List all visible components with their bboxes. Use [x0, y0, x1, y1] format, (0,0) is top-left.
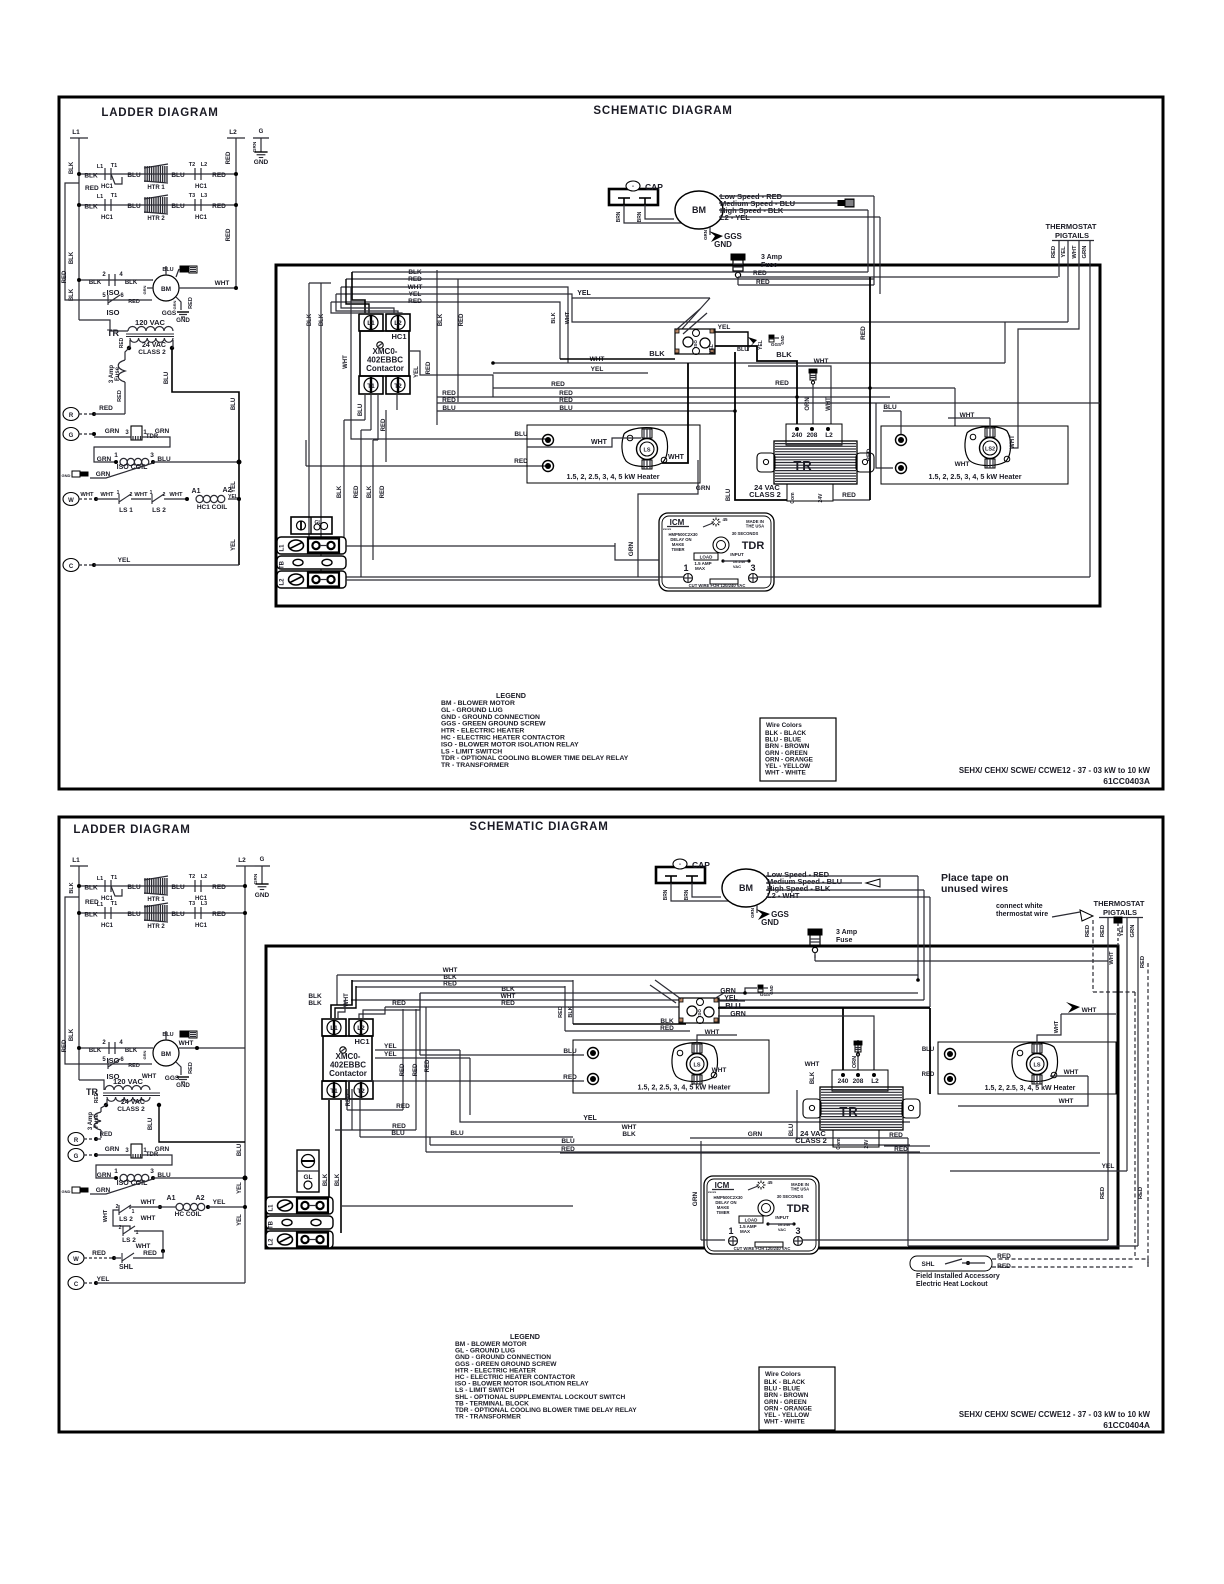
svg-text:Com: Com: [836, 1138, 842, 1150]
terminal rows p2: [266, 1197, 333, 1214]
svg-text:WHT: WHT: [80, 492, 94, 498]
svg-text:CAP: CAP: [692, 860, 710, 870]
contact HC1 p2 row2 right: [194, 907, 196, 919]
svg-text:G: G: [69, 433, 74, 439]
heater 1 box p2: [573, 1040, 769, 1093]
svg-text:RED: RED: [867, 448, 873, 461]
terminal GL block schematic1: [291, 517, 332, 534]
svg-text:L2: L2: [825, 432, 833, 439]
svg-text:TR - TRANSFORMER: TR - TRANSFORMER: [455, 1414, 521, 1421]
svg-text:VAC: VAC: [778, 1227, 786, 1232]
svg-text:L3: L3: [201, 193, 207, 199]
svg-text:BLU: BLU: [559, 405, 573, 412]
lockout SHL p2: [910, 1256, 992, 1271]
svg-text:CLASS 2: CLASS 2: [117, 1106, 145, 1113]
svg-text:RED: RED: [756, 279, 770, 286]
svg-text:YEL: YEL: [237, 1214, 243, 1226]
contact HC1 p2 row1 left: [104, 880, 106, 892]
svg-text:WHT: WHT: [805, 1061, 820, 1068]
svg-text:RED: RED: [563, 1074, 577, 1081]
svg-text:WHT: WHT: [408, 284, 423, 291]
svg-text:HC1: HC1: [101, 215, 114, 221]
svg-text:-: -: [632, 184, 634, 190]
svg-text:ICM: ICM: [670, 518, 685, 527]
svg-text:BLU: BLU: [127, 203, 141, 210]
svg-text:BLK: BLK: [335, 1173, 341, 1186]
svg-text:TIMER: TIMER: [671, 547, 684, 552]
svg-text:BLU: BLU: [725, 1001, 740, 1010]
limit switch LS 1: [118, 494, 120, 504]
svg-text:GRN: GRN: [253, 873, 259, 884]
terminal W: [63, 493, 79, 506]
wire RED h2 p2: [335, 1129, 416, 1131]
svg-text:GRN: GRN: [628, 541, 635, 556]
svg-text:CUT WIRE FOR 120/240 VAC: CUT WIRE FOR 120/240 VAC: [689, 583, 746, 588]
svg-text:RED: RED: [1100, 1187, 1106, 1199]
svg-text:1: 1: [117, 490, 120, 496]
svg-text:YEL: YEL: [758, 340, 764, 350]
svg-text:YEL: YEL: [1061, 246, 1067, 258]
svg-text:BLK: BLK: [367, 485, 373, 498]
svg-text:CLASS 2: CLASS 2: [795, 1136, 827, 1145]
svg-text:WHT: WHT: [134, 492, 148, 498]
svg-text:WHT: WHT: [142, 1073, 156, 1080]
svg-text:TR: TR: [793, 458, 812, 473]
svg-text:BLK: BLK: [568, 1006, 574, 1017]
wire BLU mid: [437, 410, 735, 412]
contact ISO 5-6 p2: [97, 1063, 135, 1065]
svg-text:W: W: [73, 1257, 79, 1263]
heater 2 box: [881, 426, 1068, 484]
svg-text:BLU: BLU: [922, 1047, 934, 1053]
svg-text:BLU: BLU: [148, 1118, 154, 1130]
capacitor CAP: [609, 189, 658, 205]
svg-text:HTR 1: HTR 1: [147, 185, 165, 191]
svg-text:TR - TRANSFORMER: TR - TRANSFORMER: [441, 762, 509, 769]
svg-text:RED: RED: [1138, 1187, 1144, 1199]
svg-text:BLU: BLU: [391, 1130, 405, 1137]
svg-text:WHT: WHT: [814, 358, 829, 365]
svg-text:GRN: GRN: [252, 141, 258, 152]
wire BLU heavy down: [735, 352, 787, 500]
svg-text:WHT: WHT: [1010, 435, 1016, 449]
svg-text:RED: RED: [117, 390, 123, 402]
svg-text:G: G: [259, 129, 264, 135]
svg-text:unused wires: unused wires: [941, 883, 1008, 895]
svg-text:RED: RED: [408, 276, 422, 283]
wire L1 rail: [78, 138, 80, 320]
svg-text:240: 240: [792, 432, 803, 439]
svg-text:WHT: WHT: [1054, 1020, 1060, 1033]
svg-text:YEL: YEL: [577, 290, 591, 297]
svg-text:R: R: [74, 1138, 79, 1144]
wire RED heavy vertical: [869, 277, 871, 500]
terminal GL block p2: [297, 1150, 319, 1192]
wires contactor2 bottom: [351, 1089, 353, 1130]
svg-text:BLK: BLK: [89, 1048, 102, 1054]
svg-text:RED: RED: [1085, 925, 1091, 937]
limit switch LS 2: [151, 494, 153, 504]
heater 2 box p2: [938, 1042, 1116, 1094]
svg-text:RED: RED: [212, 172, 226, 179]
svg-text:1.5, 2, 2.5, 3, 4, 5 kW Heater: 1.5, 2, 2.5, 3, 4, 5 kW Heater: [566, 472, 659, 481]
svg-text:YEL: YEL: [213, 1199, 226, 1206]
svg-text:BLU: BLU: [231, 398, 237, 410]
pigtail YEL: [1067, 240, 1069, 322]
wire L2 rail: [235, 138, 237, 288]
heater row2 wire p2: [79, 912, 245, 914]
svg-text:WHT: WHT: [501, 993, 516, 1000]
svg-text:T2: T2: [357, 1088, 365, 1095]
svg-text:GND: GND: [62, 1189, 71, 1194]
junction dots schematic1: [491, 361, 495, 365]
limit switch LS 2 first p2: [130, 1207, 160, 1209]
wire YEL from cluster: [715, 332, 748, 351]
svg-text:BLU: BLU: [450, 1130, 464, 1137]
svg-text:BLU: BLU: [171, 911, 185, 918]
panel 2 border frame: [59, 817, 1163, 1432]
svg-text:RED: RED: [443, 981, 457, 988]
wire CAP to BM: [624, 205, 683, 223]
svg-text:GRN: GRN: [692, 1191, 699, 1206]
svg-text:T3: T3: [189, 193, 195, 199]
svg-text:61CC0403A: 61CC0403A: [1103, 776, 1150, 786]
wire BLK left of cluster: [560, 358, 675, 360]
svg-text:YEL: YEL: [237, 1182, 243, 1194]
svg-text:thermostat wire: thermostat wire: [996, 911, 1048, 918]
node L1: [70, 137, 88, 139]
svg-text:30 SECONDS: 30 SECONDS: [777, 1194, 804, 1199]
wire stack BLK: [352, 271, 868, 273]
svg-text:RED: RED: [119, 337, 125, 348]
svg-text:1.5, 2, 2.5, 3, 4, 5 kW Heater: 1.5, 2, 2.5, 3, 4, 5 kW Heater: [637, 1083, 730, 1092]
svg-text:RED: RED: [501, 1000, 515, 1007]
terminal R p2: [68, 1133, 84, 1146]
wires right of contactor: [436, 270, 438, 425]
svg-text:A1: A1: [167, 1195, 176, 1202]
terminal G p2: [68, 1149, 84, 1162]
svg-text:RED: RED: [775, 380, 789, 387]
wire RED from fuse to pigtail: [738, 276, 1058, 278]
svg-text:HC1: HC1: [101, 923, 114, 929]
heater HTR 1: [144, 166, 146, 182]
svg-text:BLU: BLU: [162, 267, 173, 273]
svg-text:BLK: BLK: [810, 1071, 816, 1084]
svg-text:WHT: WHT: [141, 1215, 156, 1222]
svg-text:1: 1: [132, 1209, 135, 1215]
svg-text:YEL: YEL: [709, 344, 715, 354]
svg-text:YEL: YEL: [591, 366, 604, 373]
svg-text:HC1: HC1: [195, 215, 208, 221]
heater row 2 wire: [79, 204, 236, 206]
svg-text:Com: Com: [790, 492, 796, 504]
svg-text:BLK: BLK: [84, 912, 98, 919]
svg-text:RED: RED: [94, 1092, 100, 1103]
svg-text:RED: RED: [392, 1123, 406, 1130]
connector glyph yellow: [748, 337, 757, 349]
svg-text:1: 1: [728, 1226, 733, 1236]
wire stack WHT: [341, 287, 568, 363]
blower motor BM ladder p2: [153, 1040, 179, 1066]
svg-text:VAC: VAC: [733, 564, 741, 569]
svg-text:WHT: WHT: [955, 461, 970, 468]
svg-text:RED: RED: [425, 1059, 431, 1072]
lockout switch SHL p2: [121, 1253, 123, 1263]
svg-text:GGS: GGS: [162, 310, 177, 317]
svg-text:RED: RED: [753, 270, 767, 277]
svg-text:SCHEMATIC DIAGRAM: SCHEMATIC DIAGRAM: [593, 105, 732, 117]
svg-text:T2: T2: [189, 874, 195, 880]
svg-text:YEL: YEL: [409, 291, 422, 298]
svg-text:BLU: BLU: [162, 1032, 173, 1038]
svg-text:120 VAC: 120 VAC: [113, 1077, 143, 1086]
svg-text:GND: GND: [761, 918, 779, 927]
fuse 3 amp ladder p2: [101, 1105, 106, 1112]
svg-text:TDR: TDR: [742, 540, 765, 552]
svg-text:TDR: TDR: [787, 1203, 810, 1215]
svg-text:TB: TB: [269, 1220, 275, 1229]
wire TDR pin1 left: [346, 576, 684, 578]
svg-text:1: 1: [150, 490, 153, 496]
svg-text:24V: 24V: [864, 1139, 870, 1149]
svg-text:LEGEND: LEGEND: [496, 691, 526, 700]
svg-text:HC1: HC1: [195, 184, 208, 190]
svg-text:T1: T1: [111, 875, 117, 881]
svg-text:INPUT: INPUT: [730, 552, 744, 557]
wire RED mid b: [437, 396, 890, 398]
svg-text:BLU: BLU: [358, 404, 364, 416]
svg-text:GRN: GRN: [142, 285, 147, 294]
svg-text:BLU: BLU: [883, 404, 897, 411]
svg-text:RED: RED: [413, 1063, 419, 1076]
fuse 3 amp ladder: [125, 348, 129, 360]
svg-text:240: 240: [838, 1078, 849, 1085]
wires into contactor top: [352, 272, 365, 315]
svg-text:TB: TB: [280, 560, 286, 569]
svg-text:GRN: GRN: [1130, 925, 1136, 938]
svg-text:3: 3: [795, 1226, 800, 1236]
svg-text:ISO: ISO: [107, 308, 120, 317]
heater row1 wire p2: [79, 885, 245, 887]
svg-text:2: 2: [130, 492, 133, 498]
svg-text:BLK: BLK: [84, 204, 98, 211]
svg-text:LS: LS: [643, 448, 650, 454]
wire GRN p2: [690, 1137, 908, 1139]
svg-text:YEL: YEL: [97, 1276, 110, 1283]
heater HTR 2 p2: [144, 905, 146, 921]
wire RED to heater1: [306, 465, 548, 467]
svg-text:GND: GND: [714, 240, 732, 249]
svg-text:ICM: ICM: [715, 1181, 730, 1190]
svg-text:RED: RED: [860, 326, 867, 340]
wire bottom 120VAC: [79, 320, 110, 322]
wire RED under TR2: [560, 1152, 1100, 1154]
junction dots p2: [916, 978, 920, 982]
svg-text:SHL: SHL: [922, 1261, 935, 1268]
svg-text:Electric Heat Lockout: Electric Heat Lockout: [916, 1281, 988, 1288]
svg-text:THE USA: THE USA: [746, 524, 764, 529]
svg-text:xxxxx: xxxxx: [663, 527, 672, 531]
svg-text:1.5, 2, 2.5, 3, 4, 5 kW Heater: 1.5, 2, 2.5, 3, 4, 5 kW Heater: [928, 472, 1021, 481]
svg-text:LOAD: LOAD: [745, 1218, 758, 1223]
svg-text:24 VAC: 24 VAC: [142, 342, 166, 349]
svg-text:BLU: BLU: [127, 911, 141, 918]
wire ISO coil to rail p2: [153, 1177, 245, 1179]
svg-text:LS2: LS2: [985, 447, 995, 453]
pigtail RED: [1058, 240, 1060, 277]
svg-text:HC1: HC1: [195, 923, 208, 929]
svg-text:YEL: YEL: [231, 481, 237, 493]
svg-text:T1: T1: [111, 193, 117, 199]
svg-text:GRN: GRN: [172, 300, 177, 309]
terminal rows L1 TB L2: [277, 537, 346, 554]
wire RED second: [738, 284, 874, 286]
wires into ISO cluster diagonals: [676, 309, 700, 330]
schematic 2 border: [266, 946, 1118, 1248]
svg-text:GRN: GRN: [155, 428, 170, 435]
wire TR right BLU p2: [159, 1105, 245, 1142]
svg-text:BLU: BLU: [171, 203, 185, 210]
wire RED dot heater2: [947, 1076, 953, 1082]
wire RED verticals mid p2: [402, 1009, 404, 1110]
wire RED vertical 4: [385, 410, 387, 462]
pigtail GRN p2: [1137, 918, 1139, 1246]
svg-text:3: 3: [750, 563, 755, 573]
svg-text:HTR 2: HTR 2: [147, 924, 165, 930]
svg-text:BLU: BLU: [171, 172, 185, 179]
svg-text:CLASS 2: CLASS 2: [749, 490, 781, 499]
svg-text:Fuse: Fuse: [94, 1113, 100, 1128]
wire RED vertical 2: [360, 430, 362, 577]
svg-text:ISO: ISO: [697, 1009, 702, 1017]
svg-text:RED: RED: [442, 397, 456, 404]
svg-text:T1: T1: [330, 1088, 338, 1095]
svg-text:LS 2: LS 2: [122, 1237, 136, 1244]
svg-text:GND: GND: [254, 159, 269, 166]
terminal G: [63, 428, 79, 441]
svg-text:BLK: BLK: [69, 251, 75, 264]
wire ISO coil to rail: [153, 461, 239, 463]
wire thick left heater2 p2: [929, 1008, 931, 1094]
svg-text:GRN: GRN: [730, 1011, 746, 1018]
svg-text:RED: RED: [143, 1250, 157, 1257]
svg-text:ORN: ORN: [805, 397, 811, 410]
svg-text:WHT: WHT: [343, 355, 349, 369]
wire BLU to heater1: [351, 287, 548, 439]
svg-text:GRN: GRN: [750, 908, 755, 918]
svg-text:GND: GND: [176, 317, 190, 324]
heater 1 box: [527, 425, 700, 483]
svg-text:BLU: BLU: [127, 884, 141, 891]
ground G top right: [260, 138, 262, 152]
limit switch LS 2 second p2: [122, 1226, 124, 1236]
svg-text:WHT - WHITE: WHT - WHITE: [765, 770, 807, 777]
svg-text:CLASS 2: CLASS 2: [138, 349, 166, 356]
svg-text:RED: RED: [212, 203, 226, 210]
wire RED bypass left p2: [65, 897, 97, 1064]
svg-text:30 SECONDS: 30 SECONDS: [732, 531, 759, 536]
svg-text:3 Amp: 3 Amp: [836, 929, 857, 936]
svg-text:RED: RED: [188, 1062, 194, 1074]
svg-text:RED: RED: [842, 492, 856, 499]
wire WHT YEL right pair: [493, 362, 1005, 364]
svg-text:YEL: YEL: [1119, 925, 1125, 937]
svg-text:BLK: BLK: [649, 349, 665, 358]
svg-text:24V: 24V: [818, 493, 824, 503]
wire BM WHT p2: [179, 1047, 245, 1049]
svg-text:BLK: BLK: [337, 485, 343, 498]
wires SHL dashed: [992, 1258, 1148, 1260]
svg-text:GRN: GRN: [105, 428, 120, 435]
svg-text:L1: L1: [97, 194, 103, 200]
svg-text:RED: RED: [400, 1063, 406, 1076]
limit switch LS2 heater2: [965, 427, 1011, 466]
ground screw GGS under BM: [756, 905, 758, 913]
svg-text:WHT: WHT: [1109, 951, 1115, 965]
svg-text:BLU: BLU: [442, 405, 456, 412]
svg-text:L2: L2: [269, 1238, 275, 1246]
svg-text:PIGTAILS: PIGTAILS: [1055, 231, 1089, 240]
svg-text:RED: RED: [212, 911, 226, 918]
wires right of contactor2 YEL: [375, 1049, 460, 1051]
svg-text:LADDER DIAGRAM: LADDER DIAGRAM: [73, 824, 190, 836]
svg-text:1: 1: [683, 563, 688, 573]
svg-text:LOAD: LOAD: [700, 555, 713, 560]
svg-text:WHT: WHT: [565, 311, 571, 324]
wire TR secondary right BLU: [172, 348, 239, 565]
svg-text:WHT: WHT: [136, 1243, 151, 1250]
ISO relay cluster p2: [679, 998, 719, 1023]
svg-text:BLK: BLK: [84, 173, 98, 180]
svg-text:BLK: BLK: [308, 993, 322, 1000]
svg-text:BLK: BLK: [69, 882, 75, 893]
wire bottom 120VAC p2: [79, 1080, 104, 1090]
svg-text:TR: TR: [107, 328, 119, 338]
wire BLK heavy to TR2: [842, 1008, 844, 1071]
svg-text:RED: RED: [380, 485, 386, 498]
svg-text:RED: RED: [1100, 925, 1106, 937]
svg-text:RED: RED: [426, 361, 432, 374]
svg-text:RED: RED: [559, 390, 573, 397]
svg-text:L1: L1: [330, 1025, 338, 1032]
svg-text:RED: RED: [100, 1132, 113, 1138]
wire RED bypass left: [65, 183, 97, 300]
plug on medium speed wire: [719, 202, 838, 204]
svg-text:RED: RED: [1140, 956, 1146, 968]
GGS GND small glyphs: [769, 335, 774, 338]
svg-text:WHT: WHT: [1082, 1007, 1097, 1014]
svg-text:BLU: BLU: [789, 1124, 795, 1136]
svg-text:BRN: BRN: [684, 889, 690, 900]
svg-text:3: 3: [150, 452, 154, 459]
wire BLK vertical 3: [293, 440, 373, 524]
wire BLU to heater2: [735, 411, 901, 434]
wire ORN fuse TR2: [857, 1040, 859, 1071]
wire RED fuse to right p2: [815, 960, 1108, 962]
wire WHT LS1 right: [662, 363, 688, 463]
svg-text:WHT: WHT: [443, 967, 458, 974]
svg-text:RED: RED: [354, 485, 360, 498]
wire BLU h p2: [360, 1136, 573, 1138]
svg-text:RED: RED: [922, 1072, 935, 1078]
svg-text:RED: RED: [559, 397, 573, 404]
svg-text:BLK: BLK: [319, 313, 325, 326]
svg-text:Fuse: Fuse: [115, 366, 121, 381]
svg-text:WHT: WHT: [622, 1124, 637, 1131]
BM speed wires: [719, 195, 874, 197]
svg-text:24 VAC: 24 VAC: [121, 1099, 145, 1106]
svg-text:BLK: BLK: [408, 269, 422, 276]
